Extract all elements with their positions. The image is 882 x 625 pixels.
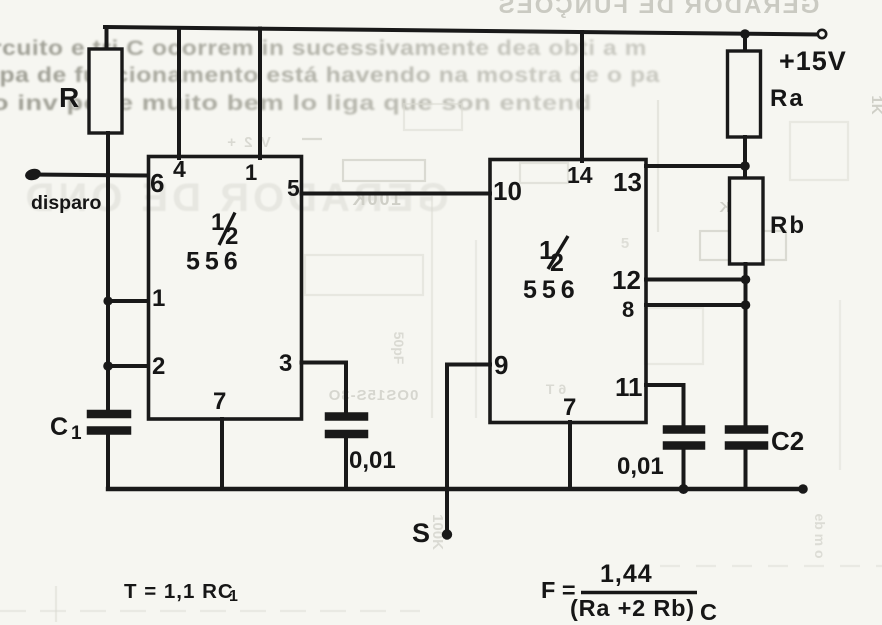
svg-text:disparo: disparo <box>31 192 102 214</box>
svg-text:T = 1,1 RC: T = 1,1 RC <box>124 580 234 603</box>
svg-text:7: 7 <box>213 388 226 415</box>
svg-text:6: 6 <box>150 168 164 198</box>
svg-text:12: 12 <box>612 265 641 295</box>
svg-text:556: 556 <box>523 276 580 304</box>
svg-text:GERADOR DE FUNÇÕES: GERADOR DE FUNÇÕES <box>497 0 820 19</box>
svg-text:0OS15S-3O: 0OS15S-3O <box>328 387 419 404</box>
svg-text:11: 11 <box>615 372 643 402</box>
svg-text:50pF: 50pF <box>391 332 407 365</box>
svg-text:C: C <box>700 599 717 625</box>
svg-text:R: R <box>59 82 79 113</box>
svg-text:9: 9 <box>494 350 508 380</box>
svg-text:556: 556 <box>186 248 243 276</box>
svg-text:0,01: 0,01 <box>617 453 664 480</box>
svg-text:5: 5 <box>287 175 300 201</box>
svg-text:+15V: +15V <box>779 46 847 76</box>
svg-text:1K: 1K <box>868 95 882 114</box>
svg-text:4: 4 <box>173 156 186 182</box>
svg-text:2: 2 <box>152 353 165 380</box>
svg-text:C2: C2 <box>771 426 804 456</box>
svg-text:1: 1 <box>211 209 224 236</box>
svg-text:Rb: Rb <box>770 212 806 239</box>
svg-text:14: 14 <box>567 162 593 188</box>
svg-text:Ra: Ra <box>770 85 805 112</box>
svg-text:C: C <box>50 413 68 441</box>
svg-text:1: 1 <box>229 588 238 605</box>
svg-text:7: 7 <box>563 394 576 421</box>
svg-text:10: 10 <box>493 176 522 206</box>
svg-text:3: 3 <box>279 350 292 377</box>
svg-text:13: 13 <box>613 167 642 197</box>
svg-text:0,01: 0,01 <box>349 447 396 474</box>
svg-text:5: 5 <box>621 235 629 252</box>
svg-text:1: 1 <box>245 160 257 185</box>
svg-text:1: 1 <box>152 285 165 312</box>
svg-text:8: 8 <box>622 297 634 322</box>
svg-text:1,44: 1,44 <box>600 560 653 588</box>
svg-text:V 2 +: V 2 + <box>225 134 270 151</box>
svg-text:S: S <box>412 518 430 548</box>
svg-text:(Ra +2 Rb): (Ra +2 Rb) <box>570 595 695 621</box>
svg-text:eb m o: eb m o <box>812 513 828 558</box>
svg-text:1: 1 <box>71 423 82 444</box>
